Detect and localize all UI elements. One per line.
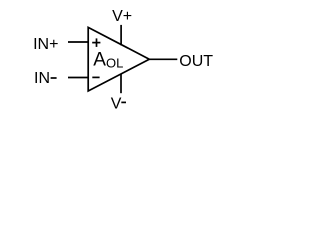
svg-text:IN: IN (34, 70, 50, 87)
wire V+ supply lead (120, 25, 122, 45)
svg-text:AOL: AOL (93, 50, 123, 71)
+ noninverting input symbol (92, 38, 100, 47)
svg-text:OUT: OUT (179, 53, 213, 70)
svg-text:V+: V+ (112, 8, 132, 25)
wire V- supply lead (120, 74, 122, 94)
dash of V- label (121, 101, 126, 103)
svg-text:IN+: IN+ (33, 36, 58, 53)
- inverting input symbol (92, 76, 99, 78)
op-amp U1 triangle body (88, 27, 149, 91)
svg-text:V: V (111, 95, 122, 112)
dash of IN- label (51, 77, 57, 79)
wire OUT lead (149, 58, 177, 60)
wire IN+ lead (68, 41, 89, 43)
wire IN- lead (68, 77, 89, 79)
